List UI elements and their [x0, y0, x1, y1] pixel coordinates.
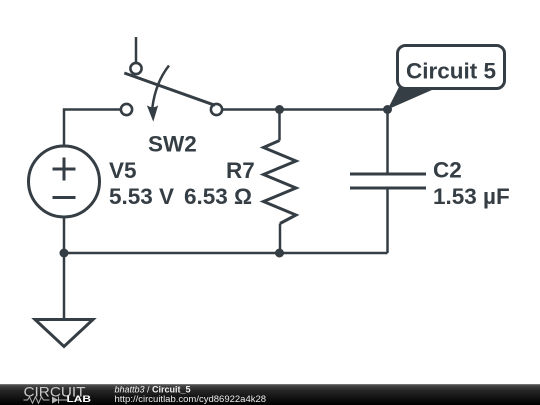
- C2 top plate: [350, 173, 426, 176]
- node dot top mid: [275, 105, 284, 114]
- SW2 left terminal: [121, 104, 132, 115]
- switch SW2: [121, 37, 222, 122]
- callout Circuit 5 box: [398, 46, 505, 89]
- SW2 top terminal: [130, 63, 141, 74]
- voltage source V5: [29, 146, 100, 217]
- wire SW2 top stub: [135, 37, 138, 63]
- wire from V5 top to switch left terminal: [64, 110, 121, 147]
- SW2 arrowhead: [147, 105, 158, 122]
- SW2 blade: [124, 73, 215, 105]
- svg-text:1.53 µF: 1.53 µF: [433, 184, 510, 209]
- svg-text:Circuit 5: Circuit 5: [406, 59, 496, 84]
- svg-text:http://circuitlab.com/cyd86922: http://circuitlab.com/cyd86922a4k28: [115, 394, 267, 405]
- svg-text:6.53 Ω: 6.53 Ω: [184, 184, 252, 209]
- capacitor C2: [350, 110, 426, 254]
- wire ground lead: [63, 253, 66, 318]
- SW2 right terminal: [211, 104, 222, 115]
- V5 body circle: [29, 146, 100, 217]
- svg-text:SW2: SW2: [148, 132, 197, 157]
- svg-text:V5: V5: [109, 158, 137, 183]
- svg-text:R7: R7: [226, 158, 255, 183]
- V5 minus sign: [53, 196, 76, 199]
- svg-text:LAB: LAB: [67, 394, 92, 405]
- C2 bottom plate: [350, 187, 426, 190]
- SW2 actuation arrow arc: [152, 66, 169, 109]
- R7 zigzag body: [264, 141, 297, 224]
- node dot bottom left: [60, 249, 69, 258]
- R7 bottom lead: [279, 224, 282, 254]
- V5 plus sign: [53, 158, 76, 181]
- callout Circuit 5 tail: [388, 86, 442, 110]
- logo mini schematic: [24, 397, 68, 404]
- resistor R7: [264, 110, 297, 254]
- R7 top lead: [278, 110, 281, 141]
- node dot bottom mid: [275, 249, 284, 258]
- C2 top lead: [386, 110, 389, 175]
- svg-text:C2: C2: [433, 158, 462, 183]
- wire from switch right terminal to top-right node: [222, 108, 388, 111]
- wire bottom rail: [64, 252, 388, 255]
- wire V5 bottom lead: [63, 217, 66, 253]
- svg-text:5.53 V: 5.53 V: [109, 184, 174, 209]
- ground: [35, 320, 93, 347]
- C2 bottom lead: [386, 188, 389, 253]
- node dot top right: [383, 105, 392, 114]
